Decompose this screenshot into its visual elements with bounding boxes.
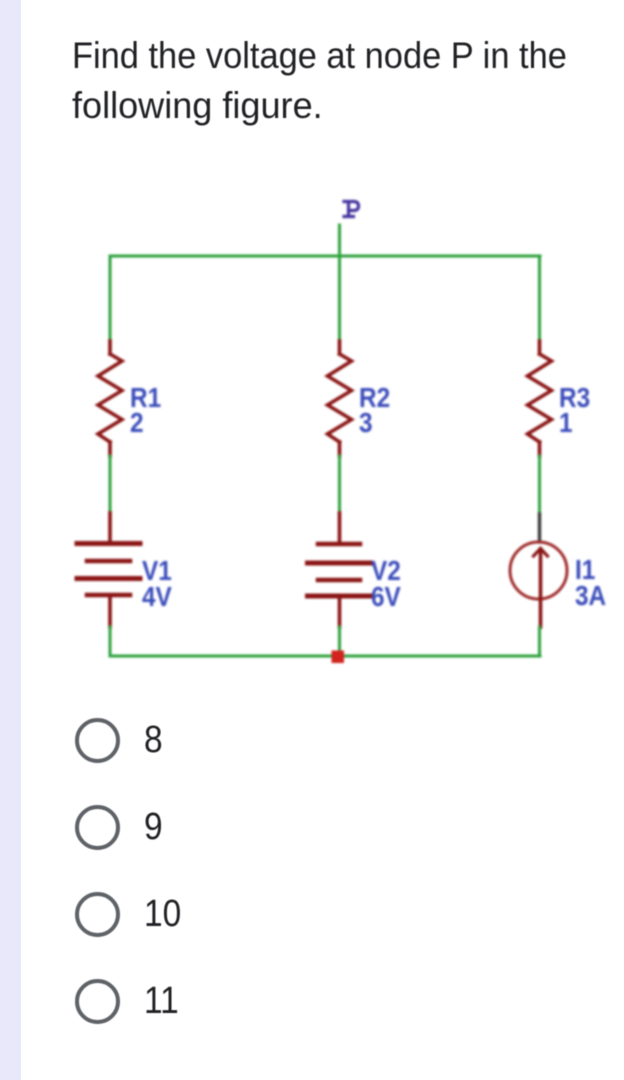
svg-text:1: 1 <box>559 406 573 438</box>
current source I1 <box>510 514 567 627</box>
option 10 <box>75 892 186 937</box>
junction ground node (red square) <box>332 651 345 664</box>
wire middle branch mid <box>338 456 341 513</box>
question title <box>72 31 567 81</box>
option 8 <box>75 718 165 763</box>
label R3 value 1 <box>559 381 590 438</box>
svg-text:2: 2 <box>130 406 144 438</box>
option 11 <box>75 979 183 1024</box>
wire top rail <box>110 255 540 258</box>
resistor R1 <box>98 341 122 456</box>
wire left branch bottom <box>109 627 112 656</box>
svg-text:6V: 6V <box>371 580 401 612</box>
lavender side strip <box>0 0 21 1080</box>
wire right branch bottom <box>538 627 541 656</box>
resistor R2 <box>328 341 352 456</box>
node P label <box>344 202 359 217</box>
wire middle branch top <box>338 256 341 341</box>
option 9 <box>75 805 165 850</box>
svg-text:3: 3 <box>359 406 373 438</box>
label V1 value 4V <box>142 554 172 612</box>
label V2 value 6V <box>371 554 401 612</box>
wire left branch mid <box>109 456 112 513</box>
wire bottom rail <box>110 655 540 658</box>
svg-text:3A: 3A <box>575 579 606 611</box>
wire middle branch bottom <box>338 627 341 652</box>
resistor R3 <box>528 341 552 456</box>
svg-text:4V: 4V <box>142 580 172 612</box>
battery V2 <box>308 513 371 627</box>
wire node P stub <box>338 225 341 256</box>
battery V1 <box>77 513 140 627</box>
wire right branch top <box>538 256 541 341</box>
label R1 value 2 <box>130 381 161 438</box>
wire right branch mid <box>538 456 541 514</box>
label R2 value 3 <box>359 381 390 438</box>
wire left branch top <box>109 256 112 341</box>
label I1 value 3A <box>575 553 606 611</box>
